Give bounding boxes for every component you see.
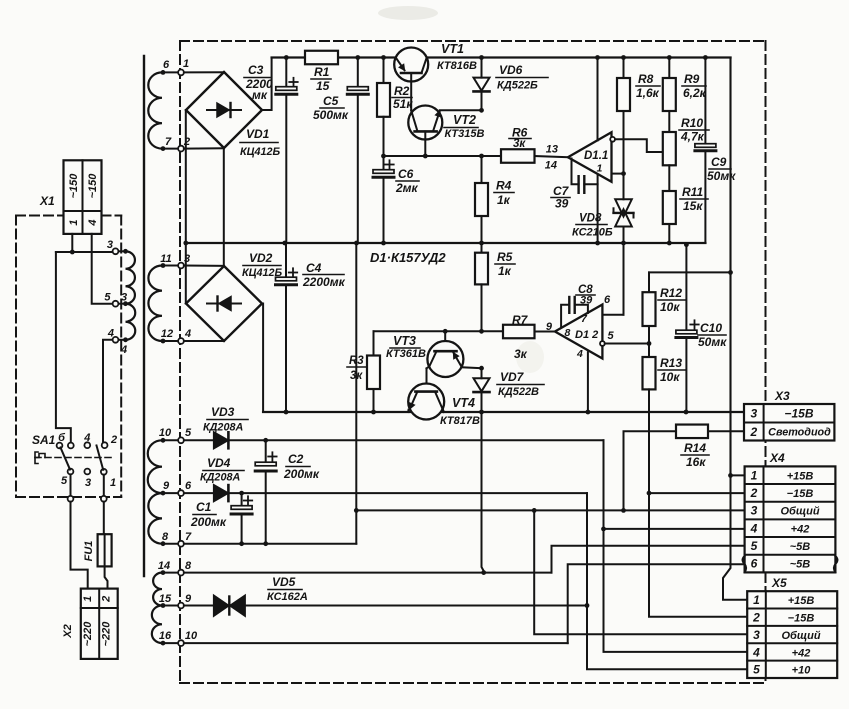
svg-text:6: 6 — [751, 557, 758, 571]
wire VD8 to common rail and down to D1.2 supply pin — [602, 227, 623, 315]
secondary winding III (pins 10,9,8 | 5,6,7) — [148, 427, 184, 547]
wire -15 rail branch down to winding pin8 line — [481, 412, 486, 575]
svg-text:+15В: +15В — [787, 470, 814, 482]
capacitor C9 50мк — [695, 58, 736, 244]
svg-text:15: 15 — [159, 593, 172, 605]
svg-text:VD1: VD1 — [246, 127, 270, 141]
svg-text:4: 4 — [576, 348, 583, 360]
wire D1.1 output feedback step to R10 — [615, 139, 663, 152]
svg-text:R12: R12 — [660, 286, 682, 300]
svg-text:8: 8 — [565, 327, 571, 339]
svg-text:9: 9 — [546, 321, 553, 333]
svg-text:200мк: 200мк — [283, 467, 320, 481]
secondary winding IV (pins 14,15,16 | 8,9,10) — [152, 560, 184, 646]
svg-text:~220: ~220 — [82, 621, 94, 647]
resistor R12 10к — [643, 270, 733, 344]
svg-text:7: 7 — [165, 136, 172, 148]
capacitor C7 39 (correction) — [551, 159, 603, 211]
svg-text:1: 1 — [753, 593, 760, 607]
capacitor C4 2200мк — [276, 243, 346, 414]
svg-text:3к: 3к — [514, 347, 528, 361]
wire winding pin 3 to VD2 ac top — [184, 265, 224, 267]
capacitor C6 2мк — [373, 156, 419, 243]
svg-text:3: 3 — [85, 477, 91, 489]
wire X1 pin4 to primary mid tap 5|3 — [92, 234, 116, 304]
diode VD6 КД522Б — [474, 58, 549, 113]
wire VD4 output line (winding pin6) — [184, 491, 587, 496]
svg-text:2мк: 2мк — [395, 181, 419, 195]
resistor R1 15 — [305, 51, 338, 93]
svg-text:~150: ~150 — [87, 173, 99, 199]
svg-text:2200мк: 2200мк — [302, 275, 346, 289]
svg-text:VT1: VT1 — [441, 42, 464, 56]
wire R8 to VD8 — [623, 111, 625, 199]
svg-text:15: 15 — [316, 79, 330, 93]
svg-text:КТ361В: КТ361В — [386, 348, 426, 360]
op-amp D1.2 — [546, 294, 615, 360]
svg-text:X4: X4 — [769, 451, 785, 465]
svg-text:C5: C5 — [323, 94, 339, 108]
connector X4 — [743, 451, 838, 572]
connector X3 — [744, 389, 834, 441]
wire +15V output bus — [723, 58, 747, 600]
svg-text:+42: +42 — [792, 647, 811, 659]
svg-text:15к: 15к — [683, 199, 703, 213]
svg-text:5: 5 — [185, 427, 192, 439]
pin labels 5,6,7 — [185, 427, 192, 543]
svg-text:КД208А: КД208А — [200, 472, 240, 484]
svg-text:VD5: VD5 — [272, 575, 296, 589]
svg-text:1: 1 — [183, 58, 189, 70]
zener VD5 КС162А (bidirectional) — [214, 575, 308, 616]
svg-text:6: 6 — [185, 480, 192, 492]
svg-text:VT3: VT3 — [393, 334, 416, 348]
svg-text:КС210Б: КС210Б — [572, 227, 613, 239]
svg-text:X5: X5 — [771, 576, 787, 590]
svg-text:14: 14 — [545, 160, 557, 172]
resistor R10 4,7к — [663, 111, 709, 165]
svg-text:Светодиод: Светодиод — [768, 427, 831, 439]
svg-text:4: 4 — [87, 219, 99, 226]
svg-text:R9: R9 — [684, 72, 700, 86]
wire -15 feed from R13 down to X4-2 and X5-2 — [647, 389, 748, 616]
svg-text:SA1: SA1 — [32, 433, 56, 447]
svg-text:1,6к: 1,6к — [636, 86, 660, 100]
svg-text:VD2: VD2 — [249, 251, 273, 265]
wire ~5V line b (winding pin10) to X4-6 — [184, 564, 745, 643]
svg-text:~220: ~220 — [101, 621, 113, 647]
svg-text:R4: R4 — [496, 179, 512, 193]
svg-text:D1·К157УД2: D1·К157УД2 — [370, 250, 446, 265]
wire +42 feed down to X4-4 and X5-4 — [601, 440, 747, 652]
op-amp D1.1 — [545, 132, 615, 182]
wire winding pin 1 to VD1 ac top — [184, 71, 224, 73]
diode VD4 КД208А — [200, 456, 244, 501]
transistor VT2 КТ315В — [408, 82, 484, 157]
wire VD1 plus output riser to +15 rail — [262, 58, 272, 111]
svg-text:1: 1 — [68, 219, 80, 225]
svg-text:6: 6 — [163, 59, 170, 71]
svg-text:−15В: −15В — [788, 613, 815, 625]
svg-text:R2: R2 — [394, 84, 410, 98]
wire R6 to op-amp D1.1 input — [535, 156, 568, 157]
pin labels 1,2 — [183, 58, 190, 148]
wire common rail down through C5 branch — [355, 243, 357, 510]
svg-text:5: 5 — [608, 330, 615, 342]
svg-text:C4: C4 — [306, 261, 322, 275]
wire common line to X4-3 — [354, 508, 745, 513]
bridge rectifier VD1 КЦ412Б — [186, 72, 281, 158]
capacitor C5 500мк — [313, 58, 368, 244]
svg-text:−15В: −15В — [784, 407, 813, 421]
svg-text:C9: C9 — [711, 155, 727, 169]
capacitor C3 2200мк — [244, 58, 298, 244]
svg-text:3: 3 — [121, 292, 127, 304]
wire +10 feed down to X5-5 — [587, 493, 747, 669]
svg-text:1: 1 — [751, 468, 758, 482]
resistor R2 51к — [377, 58, 413, 157]
svg-text:R8: R8 — [638, 72, 654, 86]
svg-text:2: 2 — [750, 486, 758, 500]
wire VD1 minus to common rail and VD2 plus — [183, 110, 188, 304]
svg-text:КТ816В: КТ816В — [437, 60, 477, 72]
wire common feed down to X5-3 — [534, 510, 747, 634]
diode VD7 КД522В — [474, 366, 545, 412]
wire +42 rectified line (winding pin5) — [184, 438, 604, 443]
svg-text:мк: мк — [252, 88, 268, 102]
secondary winding II (pins 11,12 | 3,4) — [148, 253, 183, 344]
svg-text:б: б — [58, 432, 66, 444]
scan smudge artifact (decorative) — [378, 6, 544, 373]
svg-text:4: 4 — [120, 344, 127, 356]
svg-text:~5В: ~5В — [790, 541, 811, 553]
svg-text:7: 7 — [185, 531, 192, 543]
svg-text:9: 9 — [163, 480, 170, 492]
svg-text:39: 39 — [580, 295, 593, 307]
svg-text:VD6: VD6 — [499, 63, 523, 77]
svg-text:10к: 10к — [660, 300, 680, 314]
svg-text:10: 10 — [159, 427, 172, 439]
svg-text:5: 5 — [104, 292, 111, 304]
transistor VT1 КТ816В — [394, 42, 477, 82]
svg-text:КД522Б: КД522Б — [497, 80, 538, 92]
switch SA1 (mains double-pole switch) — [32, 432, 117, 489]
svg-text:VT2: VT2 — [453, 113, 476, 127]
svg-text:КД522В: КД522В — [498, 386, 539, 398]
svg-text:4,7к: 4,7к — [680, 130, 705, 144]
wire SA1 contact 1 down through fuse FU1 to X2 pin2 — [101, 475, 108, 589]
svg-text:4: 4 — [83, 432, 90, 444]
svg-text:1: 1 — [597, 163, 603, 175]
svg-text:200мк: 200мк — [190, 515, 227, 529]
resistor R6 3к — [501, 126, 535, 163]
wire primary tap 4 down to SA1 contact 2 — [103, 340, 116, 443]
svg-text:X3: X3 — [774, 389, 790, 403]
svg-text:10: 10 — [185, 630, 198, 642]
capacitor C2 200мк — [255, 440, 320, 546]
svg-text:5: 5 — [751, 539, 758, 553]
svg-text:R14: R14 — [684, 441, 706, 455]
svg-text:R1: R1 — [314, 65, 330, 79]
dashed enclosure box around switch SA1 — [16, 216, 121, 498]
svg-text:50мк: 50мк — [698, 335, 727, 349]
svg-text:КД208А: КД208А — [203, 422, 243, 434]
svg-text:16: 16 — [159, 630, 172, 642]
svg-text:39: 39 — [555, 197, 569, 211]
svg-text:12: 12 — [161, 328, 173, 340]
connector X1 (~150 voltage selector) — [39, 160, 102, 234]
svg-text:X2: X2 — [62, 624, 74, 638]
svg-text:VT4: VT4 — [452, 396, 475, 410]
transistor VT3 КТ361В — [386, 331, 482, 377]
svg-text:−15В: −15В — [787, 488, 814, 500]
svg-text:C2: C2 — [288, 452, 304, 466]
svg-text:3: 3 — [107, 239, 113, 251]
svg-text:1: 1 — [110, 477, 116, 489]
connector X2 (~220 mains input) — [62, 589, 118, 659]
resistor R4 1к — [475, 156, 514, 243]
capacitor C1 200мк — [190, 493, 252, 546]
svg-text:КЦ412Б: КЦ412Б — [240, 146, 281, 158]
svg-text:VD4: VD4 — [207, 456, 231, 470]
resistor R3 3к — [347, 331, 380, 412]
wire VD1 ac2 to VD2 ac1 (series link) — [223, 148, 225, 265]
diode VD3 КД208А — [203, 405, 248, 448]
svg-text:6,2к: 6,2к — [683, 86, 707, 100]
IC designator D1 К157УД2 — [370, 250, 446, 265]
svg-text:C1: C1 — [196, 500, 212, 514]
resistor R14 1,6к — [624, 425, 745, 511]
wire winding pin 4 to VD2 ac bottom — [184, 340, 224, 342]
svg-text:R11: R11 — [682, 185, 703, 199]
wire VT2 base node line — [384, 155, 502, 157]
svg-text:C6: C6 — [398, 167, 414, 181]
transformer T1 core line — [143, 56, 145, 576]
svg-text:Общий: Общий — [780, 506, 819, 518]
wire D1.2 pin4 to -15 rail — [587, 352, 589, 412]
wire VT3 base node line — [374, 330, 504, 332]
junction dots VT3 node — [443, 329, 484, 334]
svg-text:6: 6 — [604, 294, 611, 306]
wire D1.1 pin1 down to common rail — [597, 184, 599, 243]
svg-text:2: 2 — [749, 425, 757, 439]
svg-text:13: 13 — [546, 144, 558, 156]
svg-text:VD8: VD8 — [579, 213, 602, 225]
svg-text:500мк: 500мк — [313, 108, 349, 122]
wire -15V rail — [263, 411, 744, 413]
resistor R8 1,6к — [617, 58, 660, 112]
svg-text:X1: X1 — [39, 194, 55, 208]
svg-text:R10: R10 — [681, 116, 703, 130]
wire VD2 minus output riser down to -15 rail — [262, 304, 263, 413]
svg-text:КС162А: КС162А — [267, 591, 308, 603]
svg-text:50мк: 50мк — [707, 169, 736, 183]
junction dots on common rail — [282, 241, 688, 248]
svg-text:3: 3 — [750, 407, 757, 421]
svg-text:C3: C3 — [248, 63, 264, 77]
dashed enclosure border of power-supply module — [180, 41, 766, 683]
resistor R13 10к — [643, 344, 687, 390]
wire X4-4 +42 line — [604, 528, 745, 530]
svg-text:8: 8 — [162, 531, 169, 543]
svg-text:+15В: +15В — [788, 595, 815, 607]
wire ~5V line a (winding pin8) to X4-5 — [184, 546, 745, 573]
svg-text:1к: 1к — [498, 264, 512, 278]
svg-text:14: 14 — [158, 560, 170, 572]
svg-text:R7: R7 — [512, 313, 529, 327]
svg-text:VD3: VD3 — [211, 405, 235, 419]
transistor VT4 КТ817В — [408, 368, 480, 427]
svg-text:5: 5 — [61, 475, 68, 487]
svg-text:4: 4 — [750, 521, 758, 535]
svg-text:+10: +10 — [792, 665, 812, 677]
svg-text:1: 1 — [82, 596, 94, 602]
svg-text:1к: 1к — [497, 193, 511, 207]
svg-text:R5: R5 — [497, 250, 513, 264]
wire D1.1 V+ supply pin from +15 rail — [597, 58, 599, 141]
svg-text:~150: ~150 — [68, 173, 80, 199]
svg-text:9: 9 — [185, 593, 192, 605]
svg-text:2: 2 — [110, 434, 117, 446]
wire common (middle) rail — [186, 242, 706, 244]
wire D1.2 output to divider — [605, 341, 652, 346]
wire +15V unregulated rail (top) — [272, 56, 731, 58]
junction dots on top rail — [284, 55, 708, 60]
svg-text:3к: 3к — [513, 138, 526, 150]
svg-text:КТ817В: КТ817В — [440, 415, 480, 427]
wire R7 to op-amp D1.2 input — [535, 331, 555, 333]
wire winding pin 2 to VD1 ac bottom — [184, 147, 224, 149]
pin labels 8,9,10 — [185, 560, 198, 642]
svg-text:2: 2 — [752, 611, 760, 625]
svg-text:D1.1: D1.1 — [584, 150, 608, 162]
wire D1.1 inverting input to VD8 reference — [612, 171, 626, 176]
wire X1 pin1 to primary tap 3 and down to SA1 — [56, 234, 116, 443]
svg-text:8: 8 — [185, 560, 192, 572]
svg-text:4: 4 — [107, 328, 114, 340]
transformer primary winding (taps 3, 5|3, 4) — [104, 239, 135, 356]
svg-text:+42: +42 — [791, 523, 810, 535]
wire VT2 emitter to VD6 node — [440, 109, 482, 111]
svg-text:4: 4 — [752, 645, 760, 659]
junction dots on -15 rail — [371, 410, 688, 415]
svg-text:3: 3 — [751, 504, 758, 518]
resistor R5 1к — [475, 243, 515, 331]
junction dots on VT2 base node — [381, 154, 484, 159]
svg-text:VD7: VD7 — [500, 370, 525, 384]
bridge rectifier VD2 КЦ412Б — [186, 251, 283, 341]
wire common return line (winding pin7) — [184, 510, 356, 543]
resistor R9 6,2к — [663, 58, 707, 112]
svg-text:Общий: Общий — [781, 630, 820, 642]
wire SA1 contact 5 down to X2 pin1 — [68, 474, 88, 588]
svg-text:16к: 16к — [686, 455, 706, 469]
svg-text:C10: C10 — [700, 321, 722, 335]
svg-text:FU1: FU1 — [83, 541, 95, 562]
connector X5 — [747, 576, 837, 678]
svg-text:2: 2 — [101, 596, 113, 603]
wire +10 rectified line (winding pin9) — [184, 603, 589, 608]
resistor R11 15к — [663, 165, 708, 243]
pin labels 3,4 — [184, 253, 191, 340]
svg-text:~5В: ~5В — [790, 559, 811, 571]
secondary winding I (pins 6,7 | 1,2) — [148, 59, 184, 152]
svg-text:R13: R13 — [660, 356, 682, 370]
resistor R7 3к — [503, 313, 535, 361]
svg-text:10к: 10к — [660, 370, 680, 384]
svg-text:5: 5 — [753, 663, 760, 677]
zener VD8 КС210Б (bidirectional) — [572, 199, 634, 238]
fuse FU1 — [83, 534, 112, 566]
capacitor C10 50мк — [676, 245, 727, 412]
svg-text:4: 4 — [184, 328, 191, 340]
svg-text:D1 2: D1 2 — [575, 329, 598, 341]
capacitor C8 39 (correction) — [561, 284, 595, 328]
svg-text:3: 3 — [753, 628, 760, 642]
svg-text:11: 11 — [160, 253, 171, 265]
svg-text:КТ315В: КТ315В — [445, 128, 485, 140]
